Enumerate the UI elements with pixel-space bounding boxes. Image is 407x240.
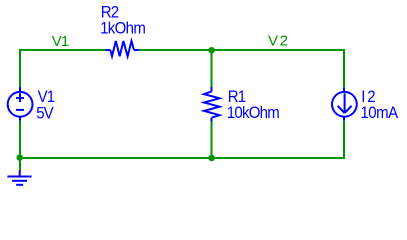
- svg-text:10mA: 10mA: [360, 104, 398, 122]
- svg-text:V1: V1: [38, 89, 55, 107]
- svg-text:R2: R2: [101, 4, 119, 22]
- svg-text:10kOhm: 10kOhm: [227, 104, 279, 122]
- svg-text:5V: 5V: [36, 105, 54, 123]
- svg-text:1kOhm: 1kOhm: [100, 20, 145, 38]
- svg-text:V2: V2: [268, 33, 290, 50]
- svg-text:V1: V1: [52, 33, 69, 50]
- svg-text:R1: R1: [228, 88, 246, 106]
- svg-text:I2: I2: [361, 88, 377, 106]
